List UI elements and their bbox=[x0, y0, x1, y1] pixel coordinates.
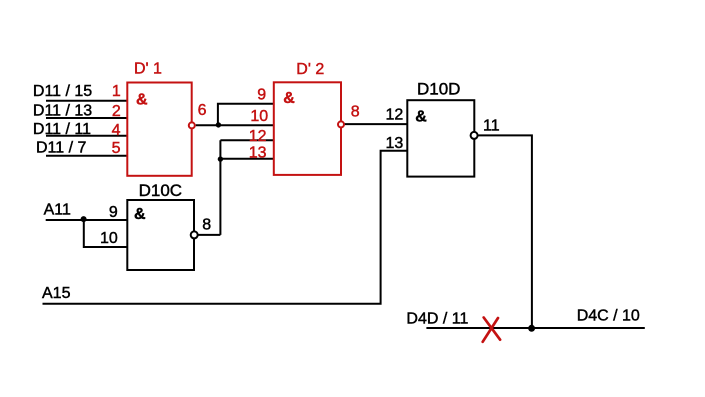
svg-text:D10C: D10C bbox=[139, 181, 182, 200]
svg-text:13: 13 bbox=[249, 144, 267, 161]
svg-text:12: 12 bbox=[386, 106, 404, 123]
svg-text:4: 4 bbox=[112, 122, 121, 139]
svg-text:D4D / 11: D4D / 11 bbox=[406, 310, 468, 327]
svg-text:10: 10 bbox=[100, 230, 118, 247]
svg-text:2: 2 bbox=[112, 103, 121, 120]
svg-text:D11 / 11: D11 / 11 bbox=[33, 121, 91, 138]
svg-text:D11 / 7: D11 / 7 bbox=[36, 140, 87, 157]
svg-text:D4C / 10: D4C / 10 bbox=[577, 307, 640, 324]
svg-text:&: & bbox=[136, 91, 148, 108]
svg-text:8: 8 bbox=[351, 104, 360, 121]
svg-text:&: & bbox=[134, 206, 146, 223]
svg-text:A15: A15 bbox=[42, 285, 71, 302]
svg-text:D' 2: D' 2 bbox=[296, 61, 324, 78]
svg-text:1: 1 bbox=[112, 83, 121, 100]
svg-text:D' 1: D' 1 bbox=[134, 61, 162, 78]
svg-text:10: 10 bbox=[250, 108, 268, 125]
svg-text:&: & bbox=[283, 90, 295, 107]
svg-text:9: 9 bbox=[257, 87, 266, 104]
svg-text:8: 8 bbox=[202, 217, 211, 234]
svg-text:D11 / 13: D11 / 13 bbox=[33, 103, 92, 120]
svg-text:D11 / 15: D11 / 15 bbox=[33, 83, 92, 100]
svg-text:13: 13 bbox=[386, 135, 404, 152]
svg-text:6: 6 bbox=[198, 102, 207, 119]
svg-text:11: 11 bbox=[483, 118, 500, 135]
svg-text:D10D: D10D bbox=[417, 80, 460, 99]
svg-text:9: 9 bbox=[109, 204, 118, 221]
svg-text:A11: A11 bbox=[44, 202, 71, 219]
svg-text:5: 5 bbox=[112, 140, 121, 157]
svg-text:&: & bbox=[415, 108, 427, 125]
svg-text:12: 12 bbox=[249, 128, 267, 145]
